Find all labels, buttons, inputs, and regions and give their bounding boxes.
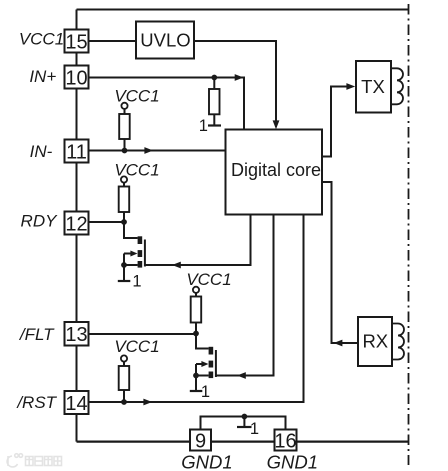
svg-text:1: 1 bbox=[199, 117, 208, 135]
terminal circle: VCC1 (IN- pullup) bbox=[121, 103, 127, 109]
node: IN- junction bbox=[122, 148, 128, 154]
svg-text:RX: RX bbox=[362, 331, 388, 352]
svg-text:TX: TX bbox=[361, 76, 385, 97]
ground: internal node 1 (Q1 source) bbox=[118, 280, 131, 282]
svg-text:UVLO: UVLO bbox=[140, 30, 190, 51]
terminal circle: VCC1 (/RST pullup) bbox=[121, 355, 127, 361]
arrowhead: IN- direction (right) bbox=[144, 147, 153, 154]
svg-text:Digital core: Digital core bbox=[231, 160, 321, 180]
coil: RX transformer winding bbox=[392, 324, 404, 360]
transistor Q2 source lead bbox=[196, 375, 209, 377]
wire: circle to resistor bbox=[123, 362, 125, 366]
block: UVLO bbox=[136, 22, 194, 59]
node: /FLT junction bbox=[193, 331, 199, 337]
svg-text:RDY: RDY bbox=[21, 211, 59, 230]
svg-text:GND1: GND1 bbox=[181, 451, 232, 471]
transistor Q1 channel segments bbox=[138, 236, 143, 244]
block: RX bbox=[358, 317, 392, 366]
arrowhead: /RST direction (right) bbox=[143, 399, 152, 406]
transistor Q2 channel segments bbox=[209, 347, 214, 355]
svg-text:VCC1: VCC1 bbox=[114, 86, 159, 105]
wire: Q1 gate drive from core bbox=[145, 215, 251, 265]
transistor Q1 source lead bbox=[124, 264, 138, 266]
ground: internal node 1 (IN+ pulldown) bbox=[208, 124, 221, 126]
transistor Q1 gate bar bbox=[144, 240, 146, 267]
wire: GND1 tie bracket pins 9-16 bbox=[201, 417, 286, 430]
resistor: /RST pullup bbox=[119, 366, 130, 390]
wire: pin15 to UVLO bbox=[89, 40, 136, 42]
wire: circle to resistor bbox=[124, 109, 126, 114]
terminal circle: VCC1 (/FLT pullup) bbox=[193, 287, 199, 293]
pin 10 box bbox=[65, 66, 89, 89]
block: TX bbox=[356, 61, 391, 113]
svg-text:15: 15 bbox=[65, 31, 87, 53]
wire: core to TX bbox=[322, 87, 348, 157]
wire: /RST from pin14 to core bottom bbox=[89, 215, 304, 402]
wire: /FLT from pin13 bbox=[89, 333, 197, 335]
wire: IN+ from pin10 to core top bbox=[89, 78, 244, 130]
node: IN+ pulldown junction bbox=[211, 75, 217, 81]
arrowhead: UVLO into core (down) bbox=[273, 120, 280, 129]
wire: resistor to IN- line bbox=[124, 139, 126, 151]
pin 15 box bbox=[65, 30, 89, 53]
wire: IC outline top border bbox=[77, 9, 410, 11]
arrowhead: from RX (left) bbox=[334, 340, 343, 347]
resistor: IN+ pulldown bbox=[209, 89, 220, 114]
svg-text:1: 1 bbox=[250, 420, 259, 438]
wire: IN- from pin11 to core bbox=[89, 150, 226, 152]
svg-text:10: 10 bbox=[65, 67, 87, 89]
arrowhead: gate drive direction (left) bbox=[172, 262, 181, 269]
svg-text:VCC1: VCC1 bbox=[186, 270, 231, 289]
svg-text:11: 11 bbox=[66, 141, 87, 163]
wire: resistor to RDY junction bbox=[123, 212, 125, 222]
svg-text:VCC1: VCC1 bbox=[19, 29, 64, 48]
svg-text:/FLT: /FLT bbox=[19, 325, 55, 344]
svg-text:VCC1: VCC1 bbox=[114, 337, 159, 356]
wire: IC outline bottom GND1 bus bbox=[77, 441, 409, 443]
resistor: /FLT pullup bbox=[191, 297, 202, 323]
node: GND1 tie junction bbox=[242, 414, 248, 420]
wire: Q1 source to ground 1 bbox=[123, 265, 125, 281]
wire: IC outline left pin column bbox=[76, 10, 78, 442]
resistor: RDY pullup bbox=[119, 187, 130, 213]
pin 11 box bbox=[65, 140, 89, 163]
svg-text:IN+: IN+ bbox=[29, 67, 56, 86]
pin 14 box bbox=[65, 391, 89, 414]
wire: resistor to /RST line bbox=[123, 390, 125, 402]
wire: circle to resistor bbox=[123, 183, 125, 187]
svg-text:/RST: /RST bbox=[16, 393, 57, 412]
block: Digital core bbox=[226, 130, 323, 215]
wire: resistor to /FLT junction bbox=[195, 323, 197, 334]
svg-text:13: 13 bbox=[65, 324, 87, 346]
wire: Q2 gate drive from core bbox=[216, 215, 274, 376]
svg-text:1: 1 bbox=[132, 273, 141, 291]
isolation barrier (dash-dot) bbox=[408, 4, 410, 465]
wire: RDY from pin12 bbox=[89, 221, 125, 223]
wire: junction to ground 1 bbox=[243, 417, 245, 428]
node: /RST junction bbox=[121, 399, 127, 405]
svg-text:VCC1: VCC1 bbox=[114, 161, 159, 180]
svg-text:14: 14 bbox=[65, 393, 87, 415]
arrowhead: IN+ direction (right) bbox=[235, 74, 244, 81]
wire: UVLO output to Digital core bbox=[194, 41, 276, 127]
pin 16 box bbox=[275, 430, 297, 451]
wire: circle to resistor bbox=[195, 293, 197, 297]
transistor Q2 body arrow bbox=[196, 363, 204, 365]
wire: Q2 source to ground 1 bbox=[195, 376, 197, 392]
svg-text:GND1: GND1 bbox=[267, 451, 318, 471]
coil: TX transformer winding bbox=[391, 68, 403, 104]
wire: resistor to ground 1 bbox=[213, 114, 215, 125]
svg-text:9: 9 bbox=[195, 430, 206, 452]
pin 9 box bbox=[190, 430, 211, 451]
svg-text:IN-: IN- bbox=[30, 142, 53, 161]
transistor Q2 (/FLT open-drain NMOS) drain lead bbox=[196, 334, 209, 349]
transistor Q1 (RDY open-drain NMOS) drain lead bbox=[124, 222, 138, 238]
node: Q2 source junction bbox=[193, 373, 199, 379]
pin 12 box bbox=[65, 212, 89, 235]
node: RDY junction bbox=[121, 219, 127, 225]
node: Q1 source junction bbox=[121, 262, 127, 268]
ground: internal node 1 (GND1) bbox=[237, 426, 252, 428]
pin 13 box bbox=[65, 322, 89, 346]
arrowhead: gate drive direction (left) bbox=[237, 372, 246, 379]
transistor Q1 body arrow bbox=[124, 253, 132, 255]
ground: internal node 1 (Q2 source) bbox=[190, 390, 203, 392]
wire: RX to core bbox=[322, 182, 358, 343]
svg-text:16: 16 bbox=[274, 430, 296, 452]
resistor: IN- pullup bbox=[119, 114, 130, 139]
svg-text:1: 1 bbox=[201, 383, 210, 401]
transistor Q2 gate bar bbox=[215, 350, 217, 377]
terminal circle: VCC1 (RDY pullup) bbox=[121, 176, 127, 182]
svg-text:12: 12 bbox=[65, 213, 87, 235]
wire: junction to pulldown resistor bbox=[213, 78, 215, 90]
watermark (faint) bbox=[7, 454, 61, 467]
arrowhead: into TX (right) bbox=[346, 83, 355, 90]
